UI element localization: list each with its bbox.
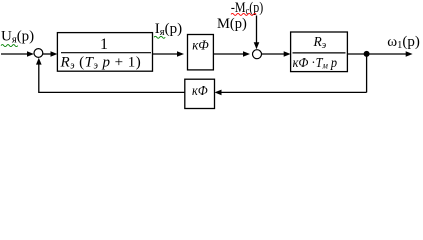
svg-text:Uя(p): Uя(p)	[1, 29, 34, 46]
label Iя(p) armature current	[154, 21, 182, 38]
wire: junction 2 to block W2	[262, 51, 291, 57]
block kФ feedback (EMF constant)	[185, 79, 215, 108]
block W2: Rэ/(кФ·Tм p) mechanical part	[291, 32, 348, 72]
svg-text:1: 1	[100, 36, 108, 53]
wire: block W1 to block kФ	[153, 51, 185, 57]
node: takeoff junction dot	[364, 51, 370, 57]
svg-text:кФ ·Tм p: кФ ·Tм p	[293, 54, 338, 71]
svg-text:кФ: кФ	[192, 37, 209, 53]
wire: feedback left segment	[39, 91, 185, 93]
label Uя(p) input voltage	[1, 29, 34, 47]
wire: junction 1 to block W1	[43, 51, 57, 57]
svg-text:M(p): M(p)	[217, 16, 247, 32]
node: summing junction 1	[34, 49, 43, 58]
svg-text:Iя(p): Iя(p)	[155, 21, 182, 38]
wire: junction dot down	[366, 54, 368, 93]
wire: block kФ to summing junction 2	[213, 51, 250, 57]
wire: input line into summing junction 1	[1, 51, 34, 57]
svg-text:кФ: кФ	[192, 82, 208, 98]
node: summing junction 2	[253, 50, 262, 59]
block W1: 1/(Rэ(Tэ p + 1)) armature circuit	[57, 33, 152, 72]
svg-text:ω1(p): ω1(p)	[387, 34, 420, 51]
label -Mc(p) load torque	[231, 0, 263, 17]
wire: feedback up into junction 1	[36, 58, 42, 93]
wire: Mc arrow down into junction 2	[254, 16, 260, 50]
block kФ (torque constant)	[188, 35, 214, 70]
wire: output line with arrow	[347, 51, 412, 57]
wire: feedback right segment into feedback block	[215, 90, 367, 96]
